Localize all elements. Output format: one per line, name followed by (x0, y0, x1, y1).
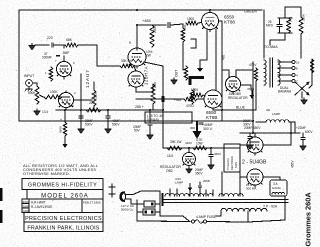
wire fuse line (137, 220, 190, 223)
wire V6b right (241, 84, 252, 86)
capacitor C7 coupling (167, 22, 169, 28)
lamp arrow (189, 183, 191, 189)
wire 465V (290, 133, 292, 145)
ground (C4) (105, 127, 111, 134)
ground (C11) (247, 143, 253, 150)
screen bracket (191, 39, 196, 48)
ground (driver) (171, 78, 177, 85)
wire (171, 24, 183, 25)
terminal 16 ohm (292, 61, 295, 64)
capacitor C5 20MF 50V (147, 122, 152, 124)
output transformer T1 primary (264, 60, 266, 85)
ground (volume pot) (34, 109, 40, 116)
wire plate up (65, 91, 67, 93)
resistor R13 (184, 66, 188, 80)
wire (198, 22, 202, 25)
volume pot R2 500K (35, 86, 39, 104)
parallel RC bracket (278, 17, 292, 19)
wire rectifier leads (263, 144, 291, 146)
thick elbow (beam plates) (190, 78, 204, 86)
scan mark left 1 (0, 188, 3, 201)
ground (C9) (208, 163, 214, 170)
wire pot wiper (301, 92, 303, 98)
tube V1a 12AU7 upper triode (57, 62, 72, 77)
wire plate down (219, 20, 223, 22)
resistor R6 220K (92, 90, 96, 106)
tube V3a 12BH7A upper (128, 48, 146, 66)
wire right edge (311, 59, 313, 73)
scan mark left 2 (0, 210, 3, 223)
wire (159, 191, 161, 216)
heater box 3A (270, 180, 287, 196)
wire (284, 33, 286, 40)
wire vertical (162, 66, 164, 121)
tube V6 OB2 regulator (183, 153, 196, 166)
resistor R19 220K (300, 7, 302, 17)
power transformer T2 primary winding (221, 208, 267, 211)
wire rail (240, 132, 300, 134)
wire V1 out (74, 99, 93, 101)
wire bias rail (163, 147, 240, 149)
wire (63, 56, 65, 62)
resistor R22 470 (184, 97, 197, 101)
box TO EACH RECTIFIER (224, 144, 240, 172)
resistor R12 2.2K (151, 84, 155, 104)
resistor R18 270 (287, 18, 291, 33)
wire lower coupling (136, 98, 161, 100)
terminal 4 ohm (292, 74, 295, 77)
bias note box (145, 112, 192, 123)
wire plug top (133, 191, 141, 195)
wire top bus (V4 plate rail) (19, 9, 243, 11)
wire plug bottom (130, 199, 132, 204)
wire left vertical (feedback line) (18, 10, 20, 121)
capacitor C3 20MF 500V (78, 115, 83, 117)
ground (C5) (147, 133, 153, 140)
wire choke (256, 121, 266, 123)
ground (C12) (300, 144, 306, 151)
big arrow (bias feed) (196, 121, 198, 132)
wire secondary taps (278, 61, 292, 63)
tube V8 5U4GB (247, 169, 263, 185)
ground (V6b) (251, 90, 253, 96)
output transformer T1 secondary (278, 60, 280, 85)
resistor R14 100ohm (190, 90, 194, 104)
paper noise overlay (0, 0, 1, 1)
resistor R16 470K (181, 28, 185, 42)
ground (output cathodes) (199, 60, 201, 69)
resistor R3 grid (49, 67, 53, 81)
capacitor C8 25MFD (277, 24, 283, 26)
junction dots (80, 109, 82, 111)
ground (input coupling) (29, 44, 35, 51)
power transformer T2 core (162, 199, 288, 201)
wire long vertical (80, 74, 82, 121)
terminal 8 ohm (292, 67, 295, 70)
wire plate rail to V3 (136, 25, 138, 48)
filter cap box 2 (143, 209, 155, 215)
wire (93, 82, 95, 90)
wire bottom ground bus (19, 120, 253, 122)
tube V7 5U4GB (247, 137, 263, 153)
wire (54, 44, 64, 46)
tube V5 6550 lower (204, 90, 222, 108)
wire green lead (243, 9, 262, 11)
input jack J1 (26, 80, 33, 87)
ground (C3) (78, 127, 84, 134)
terminal C (292, 80, 295, 83)
tube V1b 12AU7 lower triode (59, 93, 74, 108)
capacitor C9 40MF 450V (210, 148, 212, 154)
arrow down (bias tap) (64, 136, 66, 145)
transformer taps up (189, 190, 191, 196)
capacitor C14 coupling (161, 96, 163, 102)
hum balance pot X (295, 82, 309, 95)
resistor R23 (254, 68, 258, 81)
wire (136, 91, 153, 93)
tube V6b regulator (226, 77, 241, 92)
wire bus 285V (56, 109, 163, 111)
wire V4 cathode (206, 30, 208, 61)
filter cap box 1 (144, 201, 155, 207)
wire (188, 148, 190, 153)
ground (V6) (186, 167, 192, 174)
wire input top (35, 44, 49, 46)
wire top right rail (285, 6, 301, 8)
fuse F1 (191, 220, 194, 223)
wire (78, 44, 97, 46)
ground (hum pot) (301, 98, 307, 105)
scan speckle (106, 38, 109, 41)
wire +485 rail (137, 24, 166, 26)
title block frame (22, 179, 103, 232)
wire jack to pot (32, 82, 37, 84)
wire primary left (220, 211, 222, 216)
wire V6b top leads (228, 70, 230, 77)
wire cathode (65, 108, 67, 111)
tube V3b 12BH7A lower (128, 71, 144, 87)
wire V3 internal (135, 87, 137, 92)
wire (134, 66, 136, 71)
wire (96, 45, 98, 66)
capacitor C2 (56, 54, 60, 56)
power transformer T2 left bracket (161, 193, 163, 206)
wire after fuse (207, 221, 249, 224)
tube V4 6550 upper (202, 13, 219, 30)
wire V5 plate (212, 108, 214, 110)
resistor R10 250K plate load (150, 25, 154, 47)
capacitor C13 (198, 184, 202, 186)
choke L1 6800 with arrow (64, 110, 66, 122)
AC plug (121, 192, 125, 201)
wire B+ vertical (252, 62, 254, 133)
wire (97, 65, 120, 67)
wire (136, 200, 138, 221)
output transformer T1 core (269, 58, 271, 87)
wire (203, 95, 205, 96)
capacitor C4 40MF 500V (105, 115, 110, 117)
power transformer T2 secondary windings (165, 194, 213, 196)
wire (284, 7, 286, 18)
wire (255, 86, 257, 110)
wire (59, 96, 63, 98)
tick marks right of title block (109, 186, 115, 188)
